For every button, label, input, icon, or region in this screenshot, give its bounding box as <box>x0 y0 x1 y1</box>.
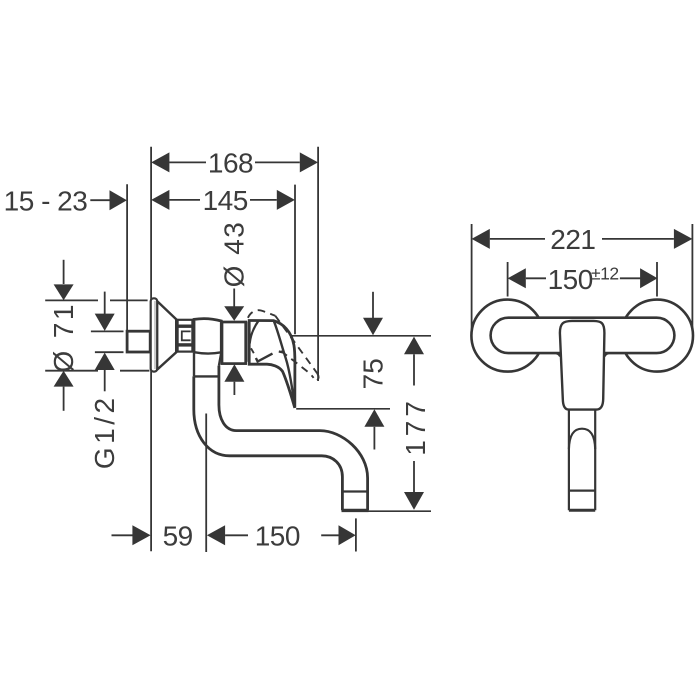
extension line 150 left <box>507 262 509 297</box>
square wall nipple <box>127 331 150 352</box>
bar-body fillets <box>556 353 609 356</box>
dimension 168 <box>151 152 318 172</box>
svg-text:150: 150 <box>548 264 593 295</box>
dimension 59 and 150 bottom <box>112 525 356 545</box>
extension line 150 right <box>656 262 658 297</box>
dimension 221 <box>472 229 693 249</box>
svg-text:177: 177 <box>400 397 431 456</box>
dimension 177 <box>404 337 424 510</box>
dimension dia 71 <box>45 260 149 411</box>
handle-tip level line y=409 <box>296 408 390 410</box>
dimension 75 <box>363 292 384 450</box>
handle grip inner line <box>256 352 283 362</box>
extension line handle dashed x=318 <box>317 147 319 381</box>
handle lever <box>249 321 295 408</box>
dimension 145 <box>151 190 295 210</box>
extension line 221 right <box>691 224 693 330</box>
svg-text:Ø 71: Ø 71 <box>48 302 79 372</box>
dimension 15 - 23 <box>90 190 127 210</box>
extension line wall-left x=127 <box>126 184 128 331</box>
spout inner edge <box>219 366 368 511</box>
outlet bottom <box>342 509 369 512</box>
svg-text:150: 150 <box>255 520 300 551</box>
cartridge-handle junction <box>245 321 247 361</box>
extension line outlet axis x=356 <box>355 518 357 551</box>
cartridge <box>222 322 246 364</box>
spout outer edge <box>194 376 343 510</box>
extension line handle solid x=295 <box>294 185 296 335</box>
svg-text:75: 75 <box>357 358 388 389</box>
threaded nipple <box>178 320 193 352</box>
front body <box>560 321 605 410</box>
handle base shoulder line <box>250 321 259 344</box>
connecting bar <box>491 318 675 353</box>
svg-text:145: 145 <box>203 185 248 216</box>
faucet body <box>194 319 221 353</box>
handle inner face line <box>274 321 295 406</box>
front handle stem <box>569 410 595 511</box>
svg-text:±12: ±12 <box>591 263 619 283</box>
swivel collar <box>194 352 221 376</box>
body waist line <box>194 352 221 353</box>
escutcheon face <box>151 298 158 371</box>
extension line wall face x=151 <box>150 147 152 551</box>
svg-text:168: 168 <box>208 147 253 178</box>
escutcheon cone <box>157 301 176 370</box>
right escutcheon circle <box>621 300 693 372</box>
svg-text:221: 221 <box>550 224 595 255</box>
extension line spout axis x=206 <box>205 414 207 553</box>
svg-text:Ø 43: Ø 43 <box>219 221 250 288</box>
dimension dia 43 <box>224 289 244 396</box>
dimension 150 +-12 <box>508 268 658 288</box>
svg-text:G1/2: G1/2 <box>89 394 120 469</box>
svg-text:15 - 23: 15 - 23 <box>4 186 88 217</box>
dashed handle raised position <box>248 310 319 381</box>
dimension G1/2 <box>91 292 124 392</box>
svg-text:59: 59 <box>163 520 193 551</box>
extension line 221 left <box>471 224 473 330</box>
axis line <box>184 335 431 337</box>
left escutcheon circle <box>471 300 543 372</box>
aerator line <box>342 490 367 492</box>
outlet bottom level line y=511 <box>369 510 432 512</box>
